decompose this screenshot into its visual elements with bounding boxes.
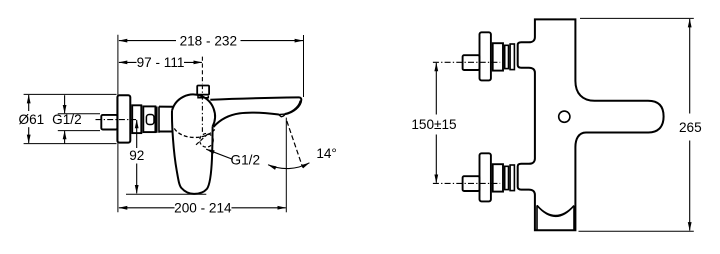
diverter knob on top [197, 86, 209, 95]
spout right edge [573, 206, 575, 230]
top union: pipe stub [463, 55, 480, 70]
bottom union: flange [463, 153, 515, 201]
bottom union: nut [493, 164, 503, 191]
dim 92 line [136, 120, 138, 148]
wall pipe stub G1/2 left view [101, 115, 117, 130]
svg-text:97 - 111: 97 - 111 [137, 55, 185, 70]
top union centerline [433, 61, 500, 63]
top union: ring2 [510, 44, 514, 70]
knob base [198, 96, 208, 98]
spout inner tip curve [285, 101, 301, 114]
top union: nut [493, 43, 503, 70]
spout outlet lip [279, 114, 285, 117]
wall flange (escutcheon) left view [117, 95, 130, 142]
joint double line [157, 107, 159, 133]
body neck bottom line [159, 131, 173, 133]
hidden dashed diagonal [196, 133, 209, 145]
svg-text:14°: 14° [316, 146, 337, 161]
body outline side view [518, 19, 664, 230]
connector centerline left view [96, 119, 137, 121]
bottom extension line for 92 [126, 193, 206, 195]
bottom union: ring1 [505, 166, 509, 189]
left wall extension line [117, 35, 119, 213]
handle top / spout outline [210, 97, 301, 114]
svg-text:265: 265 [679, 120, 702, 135]
svg-text:218 - 232: 218 - 232 [180, 33, 237, 48]
svg-text:G1/2: G1/2 [231, 152, 260, 167]
screw hole circle [559, 111, 570, 122]
bottom union centerline [433, 182, 500, 184]
spout left edge [536, 205, 538, 229]
dim G1/2 extension lines [58, 114, 100, 131]
hidden cap bottom dashed arc [174, 128, 214, 137]
dim O61 extension lines [24, 94, 117, 143]
leader line G1/2 [206, 149, 233, 159]
svg-text:Ø61: Ø61 [19, 112, 45, 127]
dimension 218-232 [119, 40, 176, 42]
dimension 97-111 [119, 61, 137, 63]
dim 150+-15 line [435, 63, 437, 115]
body cap circle arc [172, 94, 215, 126]
body egg outline [172, 111, 213, 194]
hidden G1/2 port dashed circle [200, 134, 214, 148]
spout collar outer arc [537, 205, 574, 216]
extension line outlet / angle vertex [285, 118, 287, 213]
extension line spout tip right [303, 35, 305, 97]
svg-text:150±15: 150±15 [411, 117, 456, 132]
union nut left view [143, 106, 155, 132]
svg-text:G1/2: G1/2 [52, 112, 81, 127]
handle underside curve [214, 113, 279, 127]
dim 265 extension lines [579, 18, 694, 231]
dimension 200-214 [119, 207, 175, 209]
body neck top line [159, 106, 173, 108]
bottom union: ring2 [510, 165, 514, 191]
nut face window [146, 115, 154, 125]
bottom union: pipe stub [463, 176, 480, 191]
spout collar inner arc [537, 205, 574, 215]
top union: flange [463, 32, 515, 80]
top union: ring1 [505, 45, 509, 68]
14 deg angle arc [268, 163, 309, 169]
dim O61 arrow lines [28, 95, 30, 111]
dim 265 line [689, 19, 691, 114]
svg-text:92: 92 [129, 148, 144, 163]
dim G1/2 arrow lines [64, 95, 66, 113]
svg-text:200 - 214: 200 - 214 [174, 201, 232, 216]
knob centerline dash-dot [201, 57, 203, 84]
14 deg dashed line [287, 121, 302, 166]
connector ring (big nut) left view [132, 105, 141, 133]
